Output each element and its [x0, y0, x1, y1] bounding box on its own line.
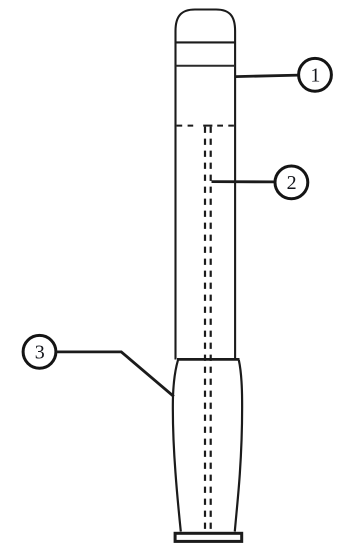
grip left edge — [173, 360, 181, 532]
callout 2 circle — [275, 166, 308, 199]
callout 2 leader — [212, 180, 276, 183]
callout 3 circle — [23, 335, 56, 368]
dome base line — [176, 41, 236, 43]
centerline right dashed — [210, 127, 212, 531]
collar line — [176, 65, 236, 67]
svg-text:1: 1 — [310, 65, 320, 87]
centerline left dashed — [204, 127, 206, 531]
callout 1 circle — [299, 58, 332, 91]
grip joint line — [177, 358, 240, 361]
tube body with dome cap — [176, 10, 236, 360]
dashed shoulder line — [177, 125, 234, 127]
svg-text:3: 3 — [35, 342, 45, 364]
svg-text:2: 2 — [287, 172, 297, 194]
center bridge dash — [203, 125, 212, 127]
callout 1 leader — [236, 75, 300, 77]
callout 3 leader — [56, 352, 174, 397]
base plate — [175, 533, 242, 541]
grip right edge — [235, 360, 242, 532]
